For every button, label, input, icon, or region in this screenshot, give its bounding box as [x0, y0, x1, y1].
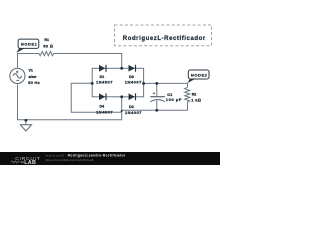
svg-text:RodriguezL-Rectificador: RodriguezL-Rectificador: [123, 36, 206, 42]
svg-text:D3: D3: [129, 75, 134, 79]
svg-text:V1: V1: [29, 69, 33, 73]
svg-text:sine: sine: [28, 74, 37, 79]
svg-text:D1: D1: [100, 75, 105, 79]
svg-text:D2: D2: [129, 105, 134, 109]
svg-text:LAB: LAB: [24, 160, 36, 165]
svg-text:1 kΩ: 1 kΩ: [191, 97, 201, 102]
svg-text:50 Ω: 50 Ω: [43, 44, 53, 49]
svg-text:50 Hz: 50 Hz: [28, 80, 40, 85]
svg-text:NODE1: NODE1: [21, 42, 38, 47]
svg-text:R2: R2: [192, 93, 197, 97]
svg-text:1N4007: 1N4007: [125, 80, 142, 85]
svg-text:R1: R1: [44, 38, 49, 42]
svg-text:http://circuitlab.com/cvm52mu5: http://circuitlab.com/cvm52mu5: [46, 158, 94, 162]
svg-text:1N4007: 1N4007: [96, 109, 113, 114]
svg-text:1N4007: 1N4007: [125, 110, 142, 115]
svg-text:NODE2: NODE2: [191, 72, 208, 77]
svg-text:leandrom62 / RodriguezLeandro-: leandrom62 / RodriguezLeandro-Rectificad…: [46, 153, 126, 157]
svg-text:1N4007: 1N4007: [96, 80, 113, 85]
svg-text:100 µF: 100 µF: [166, 97, 182, 102]
svg-text:D4: D4: [99, 104, 104, 108]
